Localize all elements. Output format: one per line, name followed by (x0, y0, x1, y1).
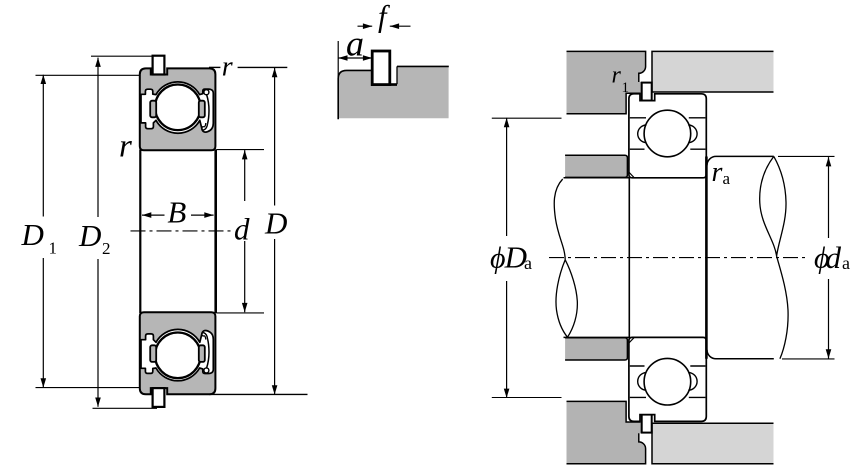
ring groove block (338, 66, 448, 118)
dimension D1 (41, 75, 47, 388)
svg-text:D: D (21, 217, 44, 252)
right drawing lower half (mirrored) (564, 258, 774, 464)
extension line D top (238, 66, 288, 68)
svg-text:a: a (346, 23, 364, 63)
extension line D2 bottom (93, 407, 158, 409)
right drawing centerline (549, 257, 807, 259)
extension line d bottom (216, 312, 264, 314)
svg-text:d: d (826, 240, 842, 275)
shaft right break line (760, 156, 788, 358)
dimension phida (826, 157, 832, 359)
extension line D1 top (36, 74, 140, 76)
svg-text:d: d (234, 211, 250, 246)
block visible edges (338, 70, 372, 119)
svg-text:a: a (842, 253, 850, 273)
svg-text:2: 2 (102, 239, 111, 258)
extension line phida top (778, 155, 835, 157)
bearing section bottom (mirrored) (140, 312, 216, 407)
extension line phiDa top (492, 117, 562, 119)
dimension phiDa (504, 118, 510, 398)
bore silhouette line left (139, 150, 141, 314)
dimension B (142, 212, 214, 218)
svg-text:B: B (167, 194, 186, 229)
dimension D2 (95, 58, 101, 407)
svg-text:1: 1 (622, 80, 630, 96)
svg-text:1: 1 (49, 239, 58, 258)
snap ring section (detail) (372, 51, 390, 85)
svg-text:D: D (264, 206, 287, 241)
svg-text:r: r (612, 63, 622, 89)
shaft left break line (554, 179, 577, 337)
svg-text:r: r (712, 157, 723, 188)
centerline axis (131, 230, 233, 232)
svg-text:a: a (723, 169, 731, 188)
extension line d top (216, 149, 264, 151)
svg-text:f: f (378, 0, 390, 34)
right drawing upper half (564, 51, 774, 257)
extension line phiDa bottom (492, 397, 562, 399)
bore silhouette line right (214, 150, 217, 314)
dimension f (358, 23, 411, 29)
dimension a (338, 55, 372, 61)
dimension d (242, 150, 248, 312)
extension line phida bottom (782, 358, 835, 360)
extension line a (337, 41, 339, 77)
bearing section top (140, 56, 216, 151)
svg-text:ϕ: ϕ (490, 242, 506, 275)
svg-text:r: r (119, 128, 132, 164)
svg-text:r: r (222, 51, 233, 82)
groove step line (396, 66, 398, 84)
svg-text:a: a (524, 253, 532, 273)
extension line D bottom (209, 393, 308, 395)
leader r top stub (209, 66, 220, 68)
groove floor (372, 83, 397, 86)
dimension D (272, 68, 278, 395)
svg-text:D: D (78, 218, 101, 253)
extension line D2 top (91, 55, 153, 57)
extension line D1 bottom (36, 387, 140, 389)
